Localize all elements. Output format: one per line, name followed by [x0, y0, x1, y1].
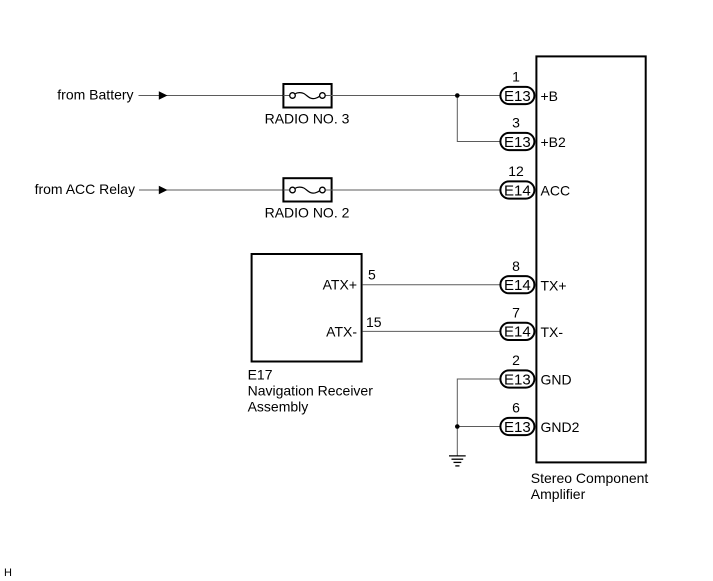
svg-text:E13: E13 [504, 134, 531, 151]
svg-text:from Battery: from Battery [57, 87, 133, 103]
svg-text:2: 2 [512, 352, 520, 368]
svg-text:E13: E13 [504, 88, 531, 105]
svg-text:ATX+: ATX+ [323, 276, 357, 292]
svg-text:Amplifier: Amplifier [531, 486, 586, 502]
svg-text:5: 5 [368, 267, 376, 283]
svg-text:TX+: TX+ [541, 277, 567, 293]
svg-text:E14: E14 [504, 182, 531, 199]
svg-text:E17: E17 [248, 367, 273, 383]
svg-text:8: 8 [512, 258, 520, 274]
svg-text:ATX-: ATX- [326, 323, 357, 339]
svg-text:E14: E14 [504, 277, 531, 294]
svg-text:12: 12 [508, 163, 524, 179]
svg-text:15: 15 [366, 314, 382, 330]
svg-text:1: 1 [512, 69, 520, 85]
svg-text:6: 6 [512, 400, 520, 416]
svg-text:from ACC Relay: from ACC Relay [35, 181, 135, 197]
svg-text:H: H [4, 567, 12, 579]
svg-text:+B2: +B2 [541, 134, 567, 150]
svg-text:Navigation Receiver: Navigation Receiver [248, 383, 374, 399]
svg-text:3: 3 [512, 115, 520, 131]
svg-text:RADIO NO. 2: RADIO NO. 2 [265, 204, 350, 220]
svg-text:GND2: GND2 [541, 419, 580, 435]
svg-text:GND: GND [541, 372, 572, 388]
svg-text:E13: E13 [504, 419, 531, 436]
svg-text:RADIO NO. 3: RADIO NO. 3 [265, 111, 350, 127]
svg-text:+B: +B [541, 88, 559, 104]
svg-text:E13: E13 [504, 371, 531, 388]
svg-text:7: 7 [512, 305, 520, 321]
svg-text:Stereo Component: Stereo Component [531, 470, 649, 486]
svg-text:ACC: ACC [541, 183, 571, 199]
svg-text:TX-: TX- [541, 324, 564, 340]
svg-text:Assembly: Assembly [248, 398, 309, 414]
svg-text:E14: E14 [504, 324, 531, 341]
